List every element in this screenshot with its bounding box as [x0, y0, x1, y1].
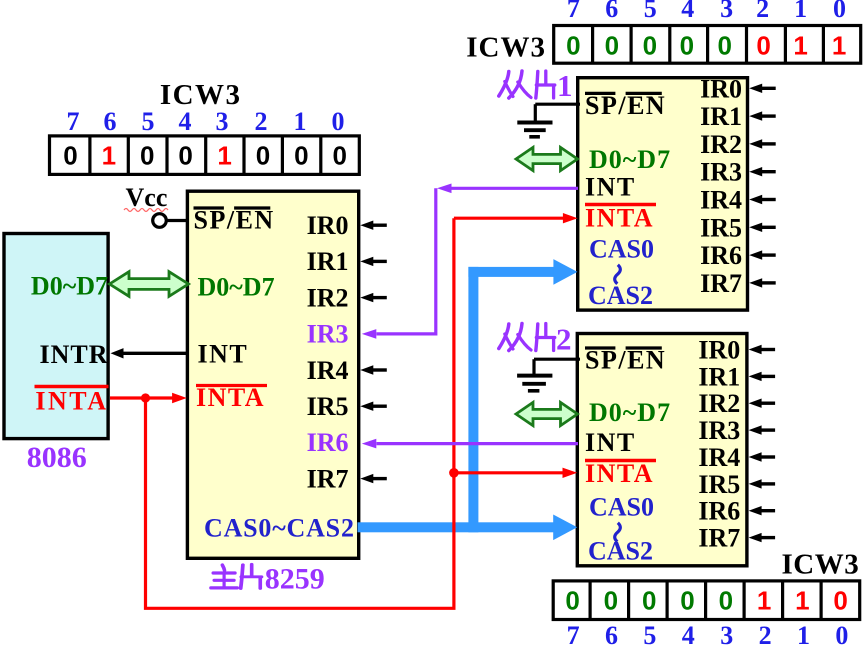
wire: interrupt request into slave2 IR5 [749, 479, 776, 488]
slave 2 8259 box [577, 334, 747, 566]
svg-text:IR5: IR5 [700, 213, 742, 242]
wire: interrupt request into master IR5 [360, 402, 387, 411]
svg-text:D0~D7: D0~D7 [31, 272, 108, 301]
svg-text:2: 2 [556, 322, 572, 357]
svg-text:4: 4 [682, 621, 695, 646]
label 主片8259 (master) [211, 563, 325, 596]
svg-text:4: 4 [681, 0, 694, 23]
cascade bus branch to slave1 CAS (thick blue) [468, 259, 577, 285]
svg-text:0: 0 [566, 30, 580, 60]
svg-text:7: 7 [567, 0, 580, 23]
svg-text:0: 0 [833, 585, 847, 615]
svg-text:ICW3: ICW3 [466, 31, 546, 63]
wire: interrupt request into slave1 IR5 [749, 223, 776, 232]
svg-text:IR3: IR3 [700, 158, 742, 187]
wire: slave2 INT to master IR6 [362, 439, 578, 449]
svg-text:0: 0 [719, 585, 733, 615]
svg-text:0: 0 [256, 141, 270, 171]
svg-text:7: 7 [67, 107, 80, 136]
slave2 CAS squiggle [615, 523, 621, 542]
ground symbol (slave1) [517, 123, 552, 137]
svg-text:IR5: IR5 [698, 470, 740, 499]
slave1 CAS squiggle [615, 265, 621, 284]
svg-text:IR6: IR6 [700, 241, 742, 270]
svg-text:SP/EN: SP/EN [585, 346, 666, 375]
Vcc label [124, 183, 168, 212]
svg-text:0: 0 [717, 30, 731, 60]
svg-text:6: 6 [605, 0, 618, 23]
slave 1 8259 box [578, 78, 748, 310]
svg-text:6: 6 [104, 107, 117, 136]
svg-text:IR7: IR7 [698, 524, 740, 553]
svg-text:IR7: IR7 [307, 464, 349, 493]
svg-text:1: 1 [217, 141, 231, 171]
svg-text:D0~D7: D0~D7 [589, 145, 671, 174]
svg-text:1: 1 [557, 68, 573, 103]
svg-text:INTA: INTA [196, 383, 265, 412]
svg-text:2: 2 [756, 0, 769, 23]
label 从片2 (slave 2) [499, 322, 572, 357]
svg-text:IR4: IR4 [700, 186, 742, 215]
wire: interrupt request into slave1 IR3 [749, 167, 776, 176]
ground symbol (slave2) [517, 376, 552, 391]
wire: interrupt request into slave1 IR4 [749, 195, 776, 204]
wire: INTA net down, across bottom and up to slaves [146, 218, 454, 608]
svg-text:ICW3: ICW3 [160, 79, 242, 111]
svg-text:IR0: IR0 [307, 211, 349, 240]
svg-text:0: 0 [140, 141, 154, 171]
ICW3 slave1 bit values [566, 30, 846, 60]
svg-text:CAS0: CAS0 [589, 235, 654, 264]
INTA net junction dot at slave2 branch [449, 468, 459, 478]
master 8259 box [187, 191, 358, 558]
svg-text:0: 0 [565, 585, 579, 615]
wire: Vcc circle to master SP/EN [167, 219, 188, 222]
svg-text:INT: INT [585, 173, 636, 202]
wire: interrupt request into slave2 IR7 [749, 533, 776, 542]
INTA net junction dot at 8086 side [141, 393, 150, 402]
wire: interrupt request into slave1 IR2 [749, 139, 776, 148]
svg-text:1: 1 [294, 107, 307, 136]
svg-text:IR3: IR3 [698, 416, 740, 445]
svg-text:7: 7 [567, 621, 580, 646]
svg-text:ICW3: ICW3 [782, 548, 860, 580]
svg-text:1: 1 [102, 141, 116, 171]
svg-text:IR6: IR6 [307, 428, 349, 457]
svg-text:5: 5 [644, 0, 657, 23]
svg-text:1: 1 [795, 585, 809, 615]
master pin SP/EN (overlined) [194, 206, 275, 235]
wire: interrupt request into slave2 IR3 [749, 425, 776, 434]
svg-text:IR5: IR5 [307, 392, 349, 421]
wire: interrupt request into master IR1 [360, 257, 387, 266]
ICW3 master register box [50, 136, 360, 175]
svg-text:IR2: IR2 [307, 283, 349, 312]
wire: INTA branch into slave1 INTA [454, 213, 578, 223]
svg-text:INT: INT [585, 428, 636, 457]
data bus double arrow at slave1 D0~D7 [516, 147, 578, 170]
ICW3 master bit numbers 7..0 [67, 107, 345, 136]
svg-text:0: 0 [605, 30, 619, 60]
svg-text:INTA: INTA [585, 204, 654, 233]
ICW3 slave2 bit values [565, 585, 847, 615]
Vcc pull-up circle on SP/EN [153, 214, 167, 228]
svg-text:0: 0 [332, 141, 346, 171]
svg-text:0: 0 [756, 30, 770, 60]
ICW3 slave2 bit numbers 7..0 [567, 621, 849, 646]
svg-text:IR2: IR2 [698, 389, 740, 418]
wire: elbow down into master IR3 [362, 188, 436, 338]
svg-text:IR1: IR1 [700, 102, 742, 131]
master pin INTA (overlined) [196, 383, 267, 412]
svg-text:IR3: IR3 [307, 320, 349, 349]
svg-text:INT: INT [198, 340, 249, 369]
svg-text:SP/EN: SP/EN [194, 206, 275, 235]
wire: slave1 SP/EN to ground [535, 104, 580, 121]
svg-text:0: 0 [332, 107, 345, 136]
svg-text:CAS0~CAS2: CAS0~CAS2 [204, 514, 355, 543]
svg-text:0: 0 [680, 585, 694, 615]
ICW3 master bit values [63, 141, 347, 171]
ICW3 slave1 register box [554, 26, 861, 64]
slave2 pin SP/EN (overlined) [585, 346, 666, 375]
svg-text:D0~D7: D0~D7 [198, 273, 275, 302]
svg-text:CAS0: CAS0 [589, 493, 654, 522]
svg-text:CAS2: CAS2 [588, 281, 653, 310]
svg-text:0: 0 [642, 585, 656, 615]
svg-text:1: 1 [794, 0, 807, 23]
data bus double arrow at slave2 D0~D7 [516, 402, 578, 425]
svg-text:4: 4 [179, 107, 192, 136]
wire: interrupt request into slave1 IR1 [749, 111, 776, 120]
svg-text:CAS2: CAS2 [588, 537, 653, 566]
wire: interrupt request into slave1 IR7 [749, 278, 776, 287]
svg-text:0: 0 [63, 141, 77, 171]
svg-text:2: 2 [255, 107, 268, 136]
svg-text:1: 1 [757, 585, 771, 615]
svg-text:IR7: IR7 [700, 269, 742, 298]
svg-text:0: 0 [294, 141, 308, 171]
svg-text:1: 1 [797, 621, 810, 646]
wire: interrupt request into slave2 IR4 [749, 452, 776, 461]
wire: interrupt request into master IR2 [360, 293, 387, 302]
svg-text:INTA: INTA [35, 387, 108, 416]
svg-text:1: 1 [793, 30, 807, 60]
svg-text:0: 0 [178, 141, 192, 171]
svg-text:D0~D7: D0~D7 [589, 398, 671, 427]
svg-text:0: 0 [833, 0, 846, 23]
wire: interrupt request into slave2 IR0 [749, 345, 776, 354]
svg-text:IR4: IR4 [307, 356, 349, 385]
svg-text:6: 6 [605, 621, 618, 646]
slave1 pin SP/EN (overlined) [585, 91, 666, 120]
wire: 8086 INTA to master INTA [110, 393, 187, 403]
svg-text:Vcc: Vcc [126, 183, 168, 212]
wire: interrupt request into master IR7 [360, 474, 387, 483]
wire: slave2 SP/EN to ground [534, 359, 580, 374]
svg-text:INTR: INTR [39, 340, 108, 369]
wire: interrupt request into master IR4 [360, 365, 387, 374]
svg-text:IR1: IR1 [307, 247, 349, 276]
svg-text:0: 0 [643, 30, 657, 60]
svg-text:8086: 8086 [27, 441, 87, 474]
svg-text:5: 5 [643, 621, 656, 646]
svg-text:IR1: IR1 [698, 362, 740, 391]
svg-text:SP/EN: SP/EN [585, 91, 666, 120]
data bus double arrow: 8086 to master D0~D7 [110, 272, 189, 297]
svg-text:IR0: IR0 [700, 74, 742, 103]
svg-text:IR0: IR0 [698, 336, 740, 365]
svg-text:INTA: INTA [585, 459, 654, 488]
svg-text:0: 0 [680, 30, 694, 60]
wire: INTA branch into slave2 INTA [454, 468, 577, 478]
svg-text:0: 0 [604, 585, 618, 615]
cascade bus CAS0~CAS2: master to slave2 (thick blue) [358, 515, 578, 541]
ICW3 slave1 bit numbers 7..0 [567, 0, 846, 23]
wire: interrupt request into slave2 IR1 [749, 372, 776, 381]
svg-text:3: 3 [720, 621, 733, 646]
wire: interrupt request into master IR0 [360, 221, 387, 230]
svg-text:3: 3 [216, 107, 229, 136]
svg-text:3: 3 [720, 0, 733, 23]
svg-text:IR6: IR6 [698, 497, 740, 526]
wire: interrupt request into slave1 IR6 [749, 250, 776, 259]
wire: interrupt request into slave1 IR0 [749, 84, 776, 93]
svg-text:0: 0 [835, 621, 848, 646]
slave2 pin INTA (overlined) [585, 459, 656, 488]
wire: master INT to 8086 INTR [111, 348, 189, 358]
svg-text:IR2: IR2 [700, 130, 742, 159]
cascade bus riser (thick blue vertical) [468, 267, 478, 532]
8086 pin INTA (active low) [35, 387, 109, 416]
slave1 pin INTA (overlined) [585, 204, 656, 233]
wire: interrupt request into slave2 IR6 [749, 506, 776, 515]
svg-text:IR4: IR4 [698, 443, 740, 472]
label 从片1 (slave 1) [499, 68, 573, 103]
svg-text:5: 5 [142, 107, 155, 136]
ICW3 slave2 register box [553, 581, 860, 620]
CPU 8086 box [4, 234, 108, 439]
wire: interrupt request into slave2 IR2 [749, 399, 776, 408]
wire: slave1 INT output (arrow toward corner) [437, 184, 578, 194]
svg-text:1: 1 [832, 30, 846, 60]
svg-text:2: 2 [759, 621, 772, 646]
svg-text:8259: 8259 [265, 563, 325, 596]
